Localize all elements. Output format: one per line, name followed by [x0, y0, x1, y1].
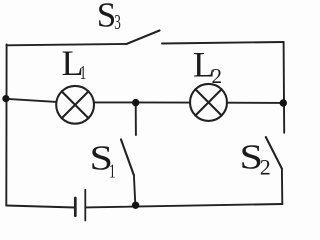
wire left [5, 44, 7, 205]
lamp L2 cross [195, 89, 221, 115]
svg-text:3: 3 [114, 10, 121, 34]
switch S1 upper lead [135, 103, 137, 136]
wire bottom-left segment [6, 206, 75, 208]
node dot: bottom junction (below S1) [132, 202, 139, 209]
wire right lower [281, 169, 283, 204]
wire lamp-row left segment [6, 99, 57, 102]
svg-text:1: 1 [80, 62, 87, 84]
svg-text:1: 1 [109, 160, 116, 182]
svg-text:2: 2 [212, 64, 223, 88]
battery long plate [84, 190, 86, 221]
wire bottom-right segment [86, 204, 283, 207]
switch S1 lower lead [134, 175, 135, 205]
wire lamp-row middle segment [94, 101, 190, 103]
switch S2 blade [266, 137, 282, 169]
wire right upper [283, 42, 286, 133]
lamp L1 cross [62, 91, 89, 118]
node dot: left junction of lamp row [2, 95, 9, 102]
node dot: middle junction (top of S1) [132, 99, 139, 106]
battery short plate [74, 198, 77, 216]
node dot: right junction of lamp row [280, 99, 287, 106]
switch S1 blade [121, 140, 134, 176]
wire top-left segment [6, 44, 126, 45]
lamp L1 circle [56, 86, 94, 124]
wire lamp-row right segment [227, 102, 284, 104]
lamp L2 circle [190, 84, 227, 121]
wire top-right segment [162, 42, 284, 44]
svg-text:2: 2 [260, 155, 271, 180]
switch S3 blade [127, 31, 160, 45]
